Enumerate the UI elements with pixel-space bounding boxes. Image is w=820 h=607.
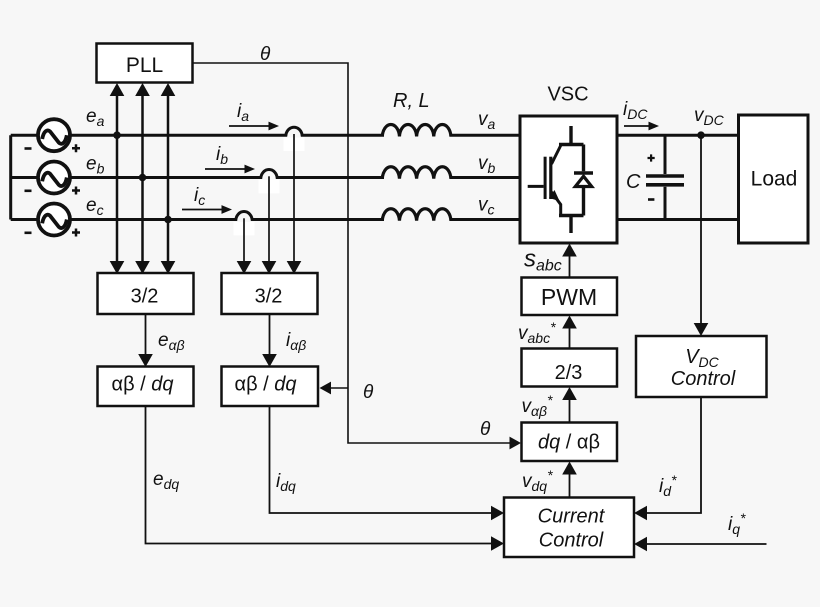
wire: v_dq* from Current Control to dq/ab: [569, 473, 571, 498]
wire: phase b line from source Eb to VSC: [70, 176, 262, 179]
capacitor C: [646, 135, 684, 219]
svg-text:Current: Current: [538, 506, 606, 528]
wire: phase a line from source Ea to VSC: [70, 134, 287, 137]
block PWM: [522, 278, 618, 316]
current sensor phase a: [284, 127, 305, 262]
block 2/3: [522, 349, 618, 387]
ac source Ec: [25, 204, 81, 237]
block Load: [739, 115, 809, 243]
block VSC: [520, 116, 617, 243]
transistor Q1 (IGBT) with diode D1 inside VSC: [528, 126, 593, 233]
node vDC: [697, 131, 705, 139]
arrowhead theta into ab/dq #2: [320, 382, 332, 395]
node: tap junction phase c: [164, 216, 172, 224]
arrowheads down into 3/2 #2: [237, 261, 252, 274]
svg-text:dq / αβ: dq / αβ: [538, 432, 600, 454]
wire: i_dq from ab/dq #2 to Current Control: [270, 406, 500, 513]
wire: phase c line from source Ec to VSC: [70, 218, 237, 221]
ac source Eb: [25, 162, 81, 195]
wire: i_d* from VDC Control to Current Control: [639, 397, 701, 513]
svg-text:VSC: VSC: [547, 84, 588, 106]
wire: v_ab* from dq/ab to 2/3: [569, 399, 571, 423]
node: tap junction phase a: [113, 131, 121, 139]
wire: DC minus rail from VSC to Load: [617, 218, 739, 221]
inductor Lb: [382, 167, 451, 179]
arrowhead theta into dq/ab: [510, 437, 522, 450]
svg-text:αβ / dq: αβ / dq: [112, 374, 174, 396]
svg-text:C: C: [626, 171, 641, 193]
svg-text:αβ / dq: αβ / dq: [235, 374, 297, 396]
inductor La: [382, 124, 451, 136]
arrowheads up into PLL: [110, 83, 125, 96]
svg-text:3/2: 3/2: [131, 286, 159, 308]
svg-text:θ: θ: [480, 419, 491, 440]
wire: theta branch into ab/dq #2: [323, 387, 348, 389]
block 3/2 #2: [222, 273, 318, 314]
wire: stub bus to source Ec: [11, 218, 38, 221]
wire: vDC measurement to VDC Control: [700, 135, 702, 324]
block ab/dq #1: [98, 367, 194, 407]
wire: stub bus to source Eb: [11, 176, 38, 179]
wire: phase b voltage tap to PLL and 3/2: [141, 95, 144, 262]
wire: DC plus rail from VSC to Load: [617, 134, 739, 137]
svg-text:3/2: 3/2: [255, 286, 283, 308]
block VDC Control: [636, 336, 767, 397]
wire: i_q* reference input: [639, 543, 767, 545]
wire: i_ab from 3/2 #2 to ab/dq #2: [269, 314, 271, 355]
node: tap junction phase b: [139, 174, 147, 182]
block PLL: [97, 44, 193, 83]
wire: stub bus to source Ea: [11, 134, 38, 137]
svg-text:Load: Load: [751, 168, 798, 191]
ac source Ea: [25, 119, 81, 152]
block ab/dq #2: [222, 367, 319, 407]
inductor Lc: [382, 209, 451, 221]
current sensor phase c: [234, 211, 255, 262]
svg-text:PLL: PLL: [126, 54, 163, 77]
block dq/ab: [522, 423, 618, 462]
svg-text:R, L: R, L: [393, 90, 430, 112]
wire: phase c voltage tap to PLL and 3/2: [167, 95, 170, 262]
wire: s_abc from PWM to VSC: [569, 255, 571, 278]
block Current Control: [504, 498, 634, 558]
wire: e_dq from ab/dq #1 to Current Control: [146, 406, 500, 544]
wire: e_ab from 3/2 #1 to ab/dq #1: [145, 314, 147, 355]
wire: theta from PLL to dq/ab converter: [193, 63, 518, 443]
svg-text:Control: Control: [671, 368, 736, 390]
wire: left negative bus connecting sources: [9, 135, 12, 219]
svg-text:PWM: PWM: [541, 284, 597, 310]
svg-text:2/3: 2/3: [555, 362, 583, 384]
block 3/2 #1: [98, 273, 194, 314]
svg-text:θ: θ: [363, 382, 374, 403]
svg-text:Control: Control: [539, 530, 604, 552]
svg-text:θ: θ: [260, 44, 271, 65]
current sensor phase b: [259, 169, 280, 262]
wire: phase a voltage tap to PLL and 3/2: [116, 95, 119, 262]
wire: v_abc* from 2/3 to PWM: [569, 327, 571, 349]
arrowheads down into 3/2 #1: [110, 261, 125, 274]
